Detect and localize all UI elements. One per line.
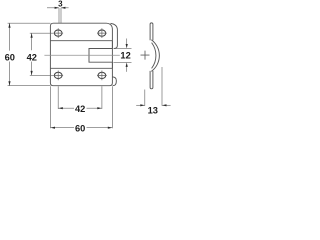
- svg-text:12: 12: [120, 51, 130, 61]
- svg-text:60: 60: [5, 52, 15, 62]
- svg-text:13: 13: [148, 105, 158, 115]
- svg-text:3: 3: [58, 0, 63, 8]
- svg-text:42: 42: [27, 52, 37, 62]
- svg-text:42: 42: [75, 104, 85, 114]
- svg-text:60: 60: [75, 123, 85, 133]
